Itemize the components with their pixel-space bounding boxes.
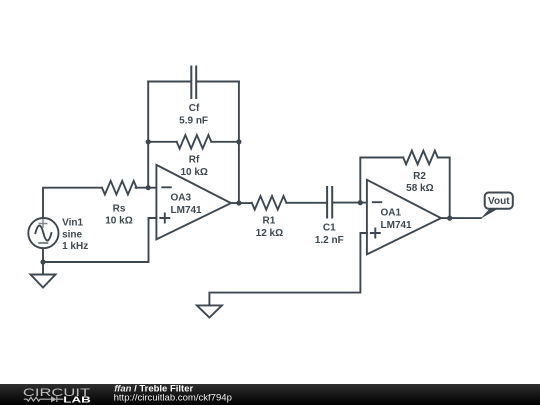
label Rf value (180, 155, 207, 179)
wire Rs to OA3 minus input (136, 187, 157, 189)
label OA1 (381, 208, 413, 232)
op-amp OA3 (156, 165, 231, 240)
svg-text:LAB: LAB (63, 395, 91, 405)
svg-text:10 kΩ: 10 kΩ (180, 167, 207, 178)
wire C1 to OA1 minus input (333, 202, 367, 204)
svg-text:OA3: OA3 (171, 193, 192, 204)
svg-text:R1: R1 (263, 216, 276, 227)
OA1 minus sign (373, 201, 382, 203)
label OA3 (171, 193, 203, 217)
resistor R1 (252, 196, 287, 210)
wire feedback left vertical (147, 82, 149, 188)
label Cf value (179, 103, 208, 126)
flag Vout (481, 193, 513, 219)
svg-text:Rs: Rs (113, 203, 126, 214)
Vin1 minus mark (39, 242, 47, 244)
label Vin1 value (62, 218, 88, 253)
label Rs value (105, 203, 132, 226)
svg-text:Cf: Cf (189, 103, 200, 114)
svg-text:58 kΩ: 58 kΩ (406, 183, 433, 194)
svg-text:LM741: LM741 (171, 205, 203, 216)
junction node OA1 minus (358, 200, 363, 205)
wire feedback right vertical (238, 82, 240, 204)
wire R2 right vertical (438, 158, 450, 219)
svg-text:1.2 nF: 1.2 nF (315, 235, 344, 246)
junction node at OA3 minus (146, 185, 151, 190)
wire OA1 plus input to ground (209, 233, 367, 305)
svg-text:Vout: Vout (488, 196, 510, 207)
junction node Vin1 bottom (40, 259, 45, 264)
wire Cf right (197, 81, 239, 83)
svg-text:10 kΩ: 10 kΩ (105, 216, 132, 227)
wire Vin1 bottom to ground (42, 248, 44, 274)
capacitor C1 (327, 187, 332, 218)
junction node OA3 output (236, 200, 241, 205)
op-amp OA1 (367, 180, 441, 255)
wire OA1 output to Vout (441, 217, 481, 219)
svg-text:12 kΩ: 12 kΩ (256, 228, 283, 239)
svg-text:R2: R2 (413, 171, 426, 182)
junction node OA1 output (447, 216, 452, 221)
wire Rf right (211, 141, 239, 143)
wire Rf left (148, 141, 177, 143)
capacitor Cf (191, 67, 196, 99)
label R2 value (406, 171, 433, 194)
voltage source Vin1 (28, 218, 58, 248)
label R1 value (256, 216, 283, 240)
CircuitLab logo diode (51, 396, 56, 402)
svg-text:LM741: LM741 (381, 220, 413, 231)
ground left (31, 275, 56, 288)
svg-text:OA1: OA1 (381, 208, 402, 219)
OA1 plus sign (371, 229, 380, 238)
wire R1 to C1 (286, 202, 326, 204)
Vin1 plus mark (39, 220, 46, 227)
svg-text:5.9 nF: 5.9 nF (179, 115, 208, 126)
resistor Rs (102, 181, 137, 195)
OA3 plus sign (160, 214, 169, 223)
svg-text:sine: sine (62, 230, 82, 241)
Vin1 sine symbol (35, 226, 51, 241)
wire Vin1 top to Rs (43, 188, 102, 218)
OA3 minus sign (162, 186, 171, 188)
svg-text:Vin1: Vin1 (62, 218, 83, 229)
svg-text:Rf: Rf (189, 155, 200, 166)
label C1 value (315, 223, 344, 246)
CircuitLab logo squiggle resistor (24, 397, 51, 401)
svg-text:C1: C1 (323, 223, 336, 234)
resistor Rf (177, 135, 212, 149)
ground right (197, 305, 222, 317)
junction node Rf left (146, 139, 151, 144)
svg-text:1 kHz: 1 kHz (62, 241, 88, 252)
wire Cf left (148, 81, 190, 83)
wire OA3 plus input to Vin1 bottom (43, 218, 156, 262)
junction node Rf right (236, 139, 241, 144)
svg-text:http://circuitlab.com/ckf794p: http://circuitlab.com/ckf794p (114, 393, 232, 404)
wire feedback2 left vertical (360, 158, 403, 203)
resistor R2 (403, 151, 438, 165)
wire OA3 output (231, 202, 252, 204)
